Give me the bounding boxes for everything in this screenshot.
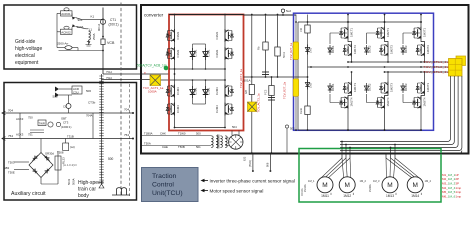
svg-text:x: x <box>144 71 146 75</box>
svg-text:DCK1: DCK1 <box>331 83 335 91</box>
svg-text:ACK01: ACK01 <box>61 12 71 16</box>
svg-text:T50E: T50E <box>8 171 15 175</box>
svg-text:TWR: TWR <box>39 121 45 125</box>
svg-text:LM2: LM2 <box>309 82 313 88</box>
svg-text:250A: 250A <box>92 33 96 40</box>
svg-text:2M10A: 2M10A <box>304 184 307 192</box>
svg-text:FC3: FC3 <box>264 89 268 95</box>
svg-text:(1000:1): (1000:1) <box>61 125 71 129</box>
svg-text:L1: L1 <box>89 27 93 31</box>
svg-text:754: 754 <box>124 133 129 137</box>
svg-text:1M14: 1M14 <box>411 194 419 198</box>
svg-text:1M13: 1M13 <box>386 194 394 198</box>
svg-text:DCK2: DCK2 <box>368 83 372 91</box>
svg-text:2500 Arr: 2500 Arr <box>57 42 68 46</box>
svg-text:CT3b: CT3b <box>88 101 96 105</box>
svg-text:C2M3: C2M3 <box>215 87 219 95</box>
svg-text:Grid-sidehigh-voltageelectrica: Grid-sidehigh-voltageelectricalequipment <box>15 39 42 66</box>
svg-text:1M3T2: 1M3T2 <box>426 45 430 54</box>
svg-text:704A: 704A <box>86 114 93 118</box>
svg-text:T1B0A: T1B0A <box>144 132 153 136</box>
svg-text:C3U: C3U <box>73 90 79 94</box>
svg-text:1M2T4: 1M2T4 <box>386 97 390 106</box>
svg-text:1000A: 1000A <box>148 90 157 94</box>
svg-text:M3_1M_33P: M3_1M_33P <box>442 182 459 186</box>
svg-text:Inverter three-phase current s: Inverter three-phase current sensor sign… <box>210 178 295 183</box>
svg-text:506: 506 <box>86 89 91 93</box>
svg-text:C1M2: C1M2 <box>176 49 180 57</box>
svg-text:GB3: GB3 <box>4 166 10 170</box>
svg-text:C1M1: C1M1 <box>176 31 180 39</box>
svg-text:TCV_CTL2_1a: TCV_CTL2_1a <box>424 65 449 69</box>
svg-text:M6_1M_61mp: M6_1M_61mp <box>442 195 462 199</box>
svg-text:TCV_ACT3_1a: TCV_ACT3_1a <box>257 93 261 112</box>
svg-text:CC: CC <box>63 105 67 109</box>
svg-text:M5_1M_51mp: M5_1M_51mp <box>442 190 462 194</box>
svg-text:(A.1.F.2)O: (A.1.F.2)O <box>63 163 77 167</box>
svg-text:ACK3: ACK3 <box>16 117 24 121</box>
svg-text:1M_1: 1M_1 <box>308 179 315 183</box>
svg-text:1M1T2: 1M1T2 <box>353 45 357 54</box>
svg-text:C1M3: C1M3 <box>176 87 180 95</box>
svg-text:504: 504 <box>232 125 237 129</box>
svg-text:(wt): (wt) <box>70 145 75 149</box>
svg-text:1M12: 1M12 <box>343 194 351 198</box>
svg-text:T31B: T31B <box>67 135 74 139</box>
svg-text:5011: 5011 <box>282 52 286 58</box>
svg-text:751A: 751A <box>106 70 112 74</box>
svg-text:(200:1): (200:1) <box>109 23 119 27</box>
svg-text:1M11: 1M11 <box>321 194 329 198</box>
svg-text:TCV_CTL3_1a: TCV_CTL3_1a <box>424 70 449 74</box>
svg-text:(5M1): (5M1) <box>248 160 252 167</box>
svg-text:501A: 501A <box>244 79 251 83</box>
svg-text:754: 754 <box>8 134 13 138</box>
svg-text:Cfd: Cfd <box>299 27 303 32</box>
svg-text:622: 622 <box>243 156 247 161</box>
svg-text:2M30A: 2M30A <box>369 184 372 192</box>
svg-text:C3D1: C3D1 <box>194 49 198 57</box>
svg-text:TCV_R2T_2a: TCV_R2T_2a <box>283 81 287 99</box>
svg-text:1M1T1: 1M1T1 <box>350 28 354 37</box>
svg-text:704: 704 <box>8 109 13 113</box>
svg-text:DCK1: DCK1 <box>331 45 335 53</box>
svg-text:Motor speed sensor signal: Motor speed sensor signal <box>210 188 264 193</box>
svg-text:ACK3: ACK3 <box>16 133 24 137</box>
svg-text:1M_2: 1M_2 <box>360 179 367 183</box>
svg-text:T503: T503 <box>8 161 15 165</box>
svg-text:K1: K1 <box>91 15 95 19</box>
svg-text:501: 501 <box>196 145 201 149</box>
svg-text:806: 806 <box>266 162 270 167</box>
svg-text:DCK2: DCK2 <box>368 45 372 53</box>
svg-text:C1M4: C1M4 <box>176 105 180 113</box>
svg-text:1M3T1: 1M3T1 <box>423 28 427 37</box>
svg-text:C3D1: C3D1 <box>194 87 198 95</box>
svg-text:1M3T4: 1M3T4 <box>423 97 427 106</box>
svg-text:C3D1: C3D1 <box>207 87 211 95</box>
svg-text:Rsnb: Rsnb <box>299 107 303 114</box>
svg-text:500: 500 <box>196 132 201 136</box>
svg-text:C2M4: C2M4 <box>215 105 219 113</box>
svg-text:T50A: T50A <box>144 142 151 146</box>
svg-text:VCB: VCB <box>107 41 115 45</box>
svg-text:DCK3: DCK3 <box>404 83 408 91</box>
svg-text:Rb: Rb <box>257 46 261 50</box>
svg-text:901: 901 <box>78 18 83 22</box>
svg-text:LM1: LM1 <box>309 47 313 53</box>
svg-text:High-speedtrain carbody: High-speedtrain carbody <box>78 180 104 199</box>
svg-text:1M1T3: 1M1T3 <box>353 83 357 92</box>
svg-text:TCV_ACT2_1a: TCV_ACT2_1a <box>239 69 243 88</box>
svg-text:ACK02: ACK02 <box>61 30 71 34</box>
svg-text:704: 704 <box>124 108 129 112</box>
svg-text:1M2T2: 1M2T2 <box>390 45 394 54</box>
svg-text:751: 751 <box>28 133 33 137</box>
svg-text:1M3T3: 1M3T3 <box>426 83 430 92</box>
svg-text:DCK3: DCK3 <box>404 45 408 53</box>
svg-text:C3D1: C3D1 <box>207 49 211 57</box>
svg-text:T50B: T50B <box>178 145 185 149</box>
svg-text:5u2: 5u2 <box>286 9 291 13</box>
svg-text:GR30d: GR30d <box>45 152 54 156</box>
svg-text:M1_1M_11P: M1_1M_11P <box>442 173 459 177</box>
svg-text:C2M2: C2M2 <box>215 49 219 57</box>
svg-text:1M2T3: 1M2T3 <box>390 83 394 92</box>
svg-text:5031: 5031 <box>67 178 71 185</box>
svg-text:500: 500 <box>53 95 58 99</box>
svg-text:converter: converter <box>144 13 164 18</box>
svg-text:CHK: CHK <box>160 132 166 136</box>
svg-text:GB: GB <box>244 90 248 94</box>
svg-text:500: 500 <box>108 157 114 161</box>
svg-text:CT1: CT1 <box>110 18 116 22</box>
svg-text:1M2T1: 1M2T1 <box>386 28 390 37</box>
svg-text:Auxiliary circuit: Auxiliary circuit <box>11 191 46 197</box>
svg-text:M010A: M010A <box>301 188 304 196</box>
svg-text:500A: 500A <box>72 178 76 185</box>
svg-text:502A(TCV_ACB_1a): 502A(TCV_ACB_1a) <box>137 64 167 68</box>
svg-text:502: 502 <box>290 127 295 131</box>
svg-text:CHE: CHE <box>162 145 168 149</box>
svg-text:1M1T4: 1M1T4 <box>350 97 354 106</box>
svg-text:TCV_R2T_1a: TCV_R2T_1a <box>289 42 293 60</box>
svg-text:750: 750 <box>28 116 33 120</box>
svg-text:901 A: 901 A <box>97 24 101 31</box>
svg-text:T1W0: T1W0 <box>178 132 186 136</box>
svg-text:1M_3: 1M_3 <box>373 179 380 183</box>
svg-text:C2M1: C2M1 <box>215 31 219 39</box>
svg-text:TCV_CTL1_1a: TCV_CTL1_1a <box>424 60 449 64</box>
svg-text:1M_4: 1M_4 <box>425 179 432 183</box>
